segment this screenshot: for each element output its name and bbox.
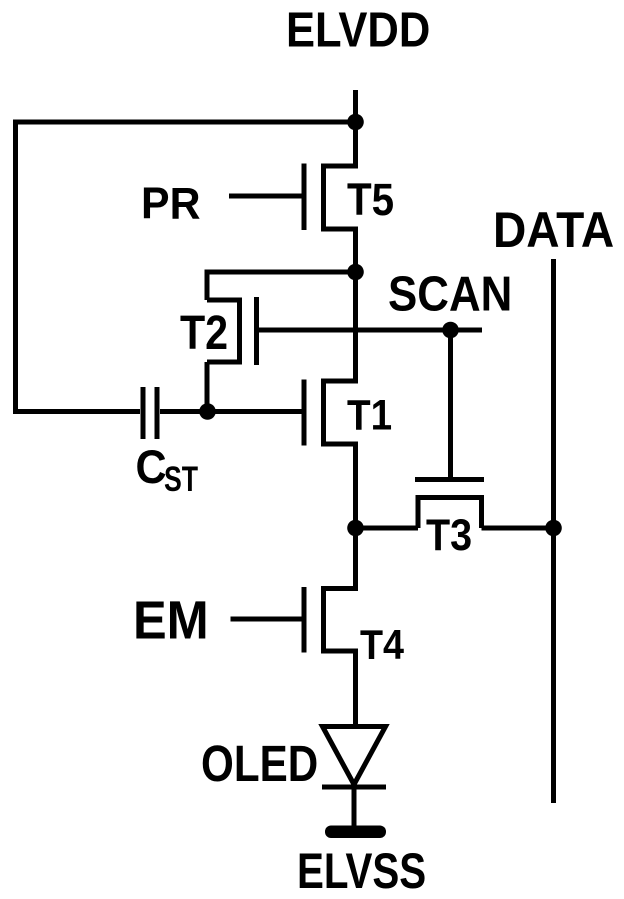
- wire EM gate lead: [231, 617, 303, 622]
- node dot N1 T5-source / T2-drain / T1-drain: [347, 264, 364, 281]
- diode OLED: [322, 727, 386, 788]
- svg-text:DATA: DATA: [493, 201, 614, 258]
- svg-text:ELVDD: ELVDD: [286, 3, 430, 58]
- svg-text:SCAN: SCAN: [388, 268, 512, 322]
- label C_ST: [136, 441, 199, 499]
- wire feedback loop: top horizontal, left vertical, bottom horizontal to C_ST: [16, 122, 356, 412]
- svg-text:T3: T3: [426, 511, 472, 560]
- wire C_ST to T1 gate: [160, 409, 302, 414]
- transistor T5: [304, 122, 356, 272]
- node DATA junction dot: [545, 520, 562, 537]
- svg-text:C: C: [136, 441, 167, 494]
- svg-text:ST: ST: [164, 460, 198, 499]
- node dot N2 T1-source / T3 / T4-drain: [347, 520, 364, 537]
- wire T2 source down to node B: [205, 362, 210, 412]
- wire OLED cathode to ELVSS: [352, 787, 357, 826]
- wire PR gate lead: [229, 194, 302, 199]
- capacitor C_ST plates: [143, 387, 157, 439]
- svg-text:EM: EM: [133, 591, 209, 651]
- transistor T1: [304, 272, 356, 528]
- wire DATA line: [551, 259, 556, 803]
- wire N2 to T3: [356, 526, 419, 531]
- wire N1 to T2 drain: [207, 272, 356, 300]
- transistor T2: [207, 297, 257, 365]
- wire SCAN line (T2 gate lead): [259, 328, 483, 333]
- svg-text:OLED: OLED: [201, 735, 318, 792]
- node SCAN junction dot: [442, 322, 459, 339]
- transistor T4: [304, 528, 356, 726]
- svg-text:T5: T5: [347, 174, 394, 225]
- ground ELVSS bar: [325, 826, 386, 839]
- wire SCAN to T3 gate: [448, 330, 453, 478]
- wire ELVDD stub: [353, 90, 358, 122]
- wire T3 to DATA line: [482, 526, 554, 531]
- svg-text:T4: T4: [360, 621, 405, 668]
- svg-text:PR: PR: [141, 180, 201, 229]
- transistor T3: [415, 480, 484, 529]
- svg-text:T2: T2: [180, 306, 228, 360]
- svg-text:T1: T1: [347, 393, 392, 440]
- svg-text:ELVSS: ELVSS: [297, 842, 426, 899]
- node ELVDD junction dot: [347, 114, 364, 131]
- node dot B C_ST / T2-source / T1-gate: [199, 403, 216, 420]
